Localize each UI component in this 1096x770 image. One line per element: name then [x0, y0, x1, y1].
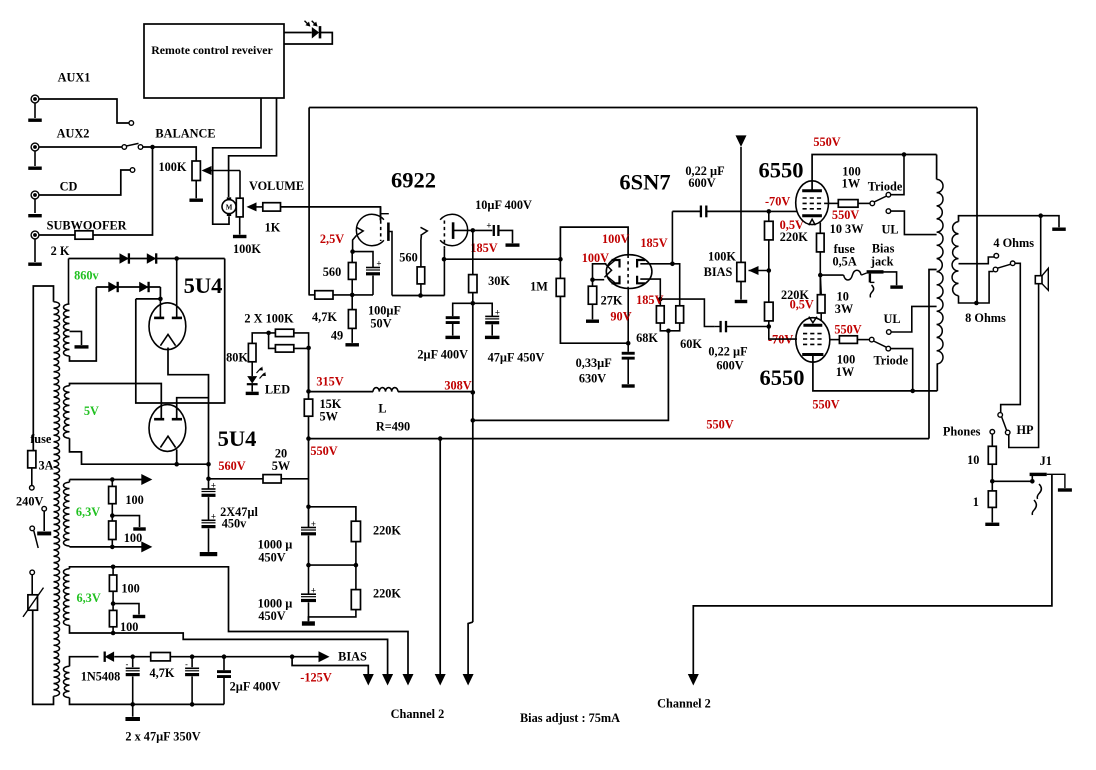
ground bias pot — [740, 282, 742, 300]
mains transformer 5V winding — [63, 386, 69, 439]
remote control receiver box — [144, 24, 284, 98]
svg-text:UL: UL — [881, 223, 898, 237]
grid 6SN7 dashed — [627, 255, 629, 289]
resistor 2K — [75, 231, 93, 239]
diode D1 — [120, 253, 129, 263]
wire 220K mid — [768, 240, 770, 302]
svg-text:0,5V: 0,5V — [790, 297, 814, 311]
svg-text:30K: 30K — [488, 274, 510, 288]
svg-text:fuse: fuse — [30, 432, 52, 446]
svg-text:50V: 50V — [370, 317, 391, 331]
arrow 6.3V-1 bottom — [141, 541, 152, 552]
wire 6.3V-2 bottom lead to channel2 — [70, 625, 388, 674]
wire 4,7K to cathode node — [333, 294, 352, 296]
capacitor 100uF 50V — [353, 252, 373, 268]
wire CD to selector — [39, 170, 130, 195]
ground AUX2 jack — [28, 167, 42, 170]
svg-text:68K: 68K — [636, 331, 658, 345]
speaker — [1040, 216, 1042, 276]
wire B+ rail — [308, 348, 310, 399]
svg-text:6550: 6550 — [759, 158, 804, 183]
node bleeder mid — [309, 564, 356, 566]
ground SUBWOOFER jack — [28, 263, 42, 266]
wire OPT top lead — [936, 155, 938, 180]
resistor 1 phones — [988, 491, 996, 508]
wire 6SN7 left plate — [593, 264, 607, 280]
ground AUX1 jack — [28, 119, 42, 122]
svg-text:600V: 600V — [716, 359, 743, 373]
svg-text:Channel 2: Channel 2 — [657, 697, 711, 711]
wire output node down — [472, 230, 474, 274]
wire selector common down — [1001, 263, 1021, 413]
wire plate lower to OPT bottom — [813, 355, 937, 391]
svg-text:560: 560 — [399, 251, 417, 265]
node cathode network — [350, 293, 355, 298]
arrow channel2 bias — [363, 674, 374, 686]
node 8 ohm feedback — [974, 301, 979, 306]
svg-text:M: M — [226, 204, 233, 212]
svg-text:+: + — [486, 221, 491, 231]
wire secondary top to common — [959, 216, 1041, 222]
wire J1 sleeve to channel 2 — [693, 474, 1052, 674]
svg-text:5V: 5V — [84, 404, 99, 418]
svg-text:100V: 100V — [602, 232, 629, 246]
svg-text:5W: 5W — [320, 410, 339, 424]
ground heater1 — [112, 516, 139, 527]
terminal Phones — [990, 430, 995, 435]
diode D3 — [108, 282, 117, 292]
svg-text:UL: UL — [883, 312, 900, 326]
svg-text:2 K: 2 K — [51, 244, 70, 258]
svg-text:jack: jack — [870, 255, 894, 269]
svg-text:BIAS: BIAS — [338, 649, 367, 663]
wire bias line — [114, 656, 151, 658]
grids 6550 lower dashed — [803, 333, 824, 335]
svg-text:1N5408: 1N5408 — [81, 670, 121, 684]
wire tube1 cathode to 560V — [168, 348, 209, 465]
wire tube2 plate to node B route — [177, 398, 209, 420]
svg-text:Channel 2: Channel 2 — [391, 707, 445, 721]
cathode 6550 lower — [803, 324, 822, 327]
wire bias line 2 — [170, 656, 318, 658]
wire HV diode row 2 — [96, 286, 160, 288]
tube 6SN7 envelope — [606, 255, 652, 289]
node 6922a cathode — [350, 249, 355, 254]
RCA jack AUX1 — [31, 95, 39, 103]
wire cathode lower up — [820, 313, 822, 321]
selector contact CD — [130, 168, 135, 173]
node B+ long line — [306, 436, 311, 441]
svg-text:315V: 315V — [316, 374, 343, 388]
svg-text:2 X 100K: 2 X 100K — [244, 312, 294, 326]
wire SRPP node — [392, 295, 445, 297]
plates 6SN7 — [612, 260, 620, 268]
node 308V — [471, 390, 476, 395]
mains transformer primary winding — [54, 302, 60, 697]
svg-text:550V: 550V — [813, 135, 840, 149]
svg-text:4,7K: 4,7K — [150, 666, 175, 680]
wire 6922b plate to node — [453, 229, 473, 231]
svg-text:47µF 450V: 47µF 450V — [488, 350, 545, 364]
svg-text:1K: 1K — [265, 221, 281, 235]
rectifier tube V2 5U4 — [149, 405, 186, 452]
node bias out — [290, 654, 295, 659]
svg-text:6,3V: 6,3V — [76, 591, 100, 605]
arrow channel2 heater b — [403, 674, 414, 686]
diode D2 — [147, 253, 156, 263]
wire remote out B — [229, 98, 277, 197]
motor M volume — [222, 200, 236, 214]
node OPT bottom triode tap — [910, 389, 915, 394]
terminal 240V neutral — [42, 506, 47, 511]
node channel2 B+ takeoff — [438, 436, 443, 441]
wire AUX1 to selector — [39, 99, 129, 123]
capacitor 0,22uF 600V lower — [715, 326, 720, 328]
plate 6922b — [452, 222, 455, 239]
resistor 100 (hum balance 1b) — [109, 521, 116, 540]
svg-text:0,33µF: 0,33µF — [576, 356, 612, 370]
svg-text:HP: HP — [1016, 423, 1034, 437]
wire node A to tube1 plate — [159, 299, 161, 318]
wire to UL/Triode switch upper — [858, 202, 870, 204]
wire 5V bottom to 560V rail — [70, 438, 209, 464]
wire common bus right edge to 8ohm tap — [976, 108, 978, 304]
rectifier tube V1 5U4 — [149, 303, 186, 350]
svg-text:5U4: 5U4 — [218, 426, 257, 451]
capacitor 0,33uF 630V — [627, 343, 629, 352]
node heater1 top — [110, 477, 115, 482]
jack J1 — [992, 480, 1032, 482]
node splitter return — [666, 329, 671, 334]
contact 4 ohms — [994, 253, 999, 258]
ground 27K — [592, 304, 594, 319]
ground 2uF — [445, 336, 460, 339]
wire 8 ohm tap — [959, 272, 994, 304]
wire bias winding top to diode — [70, 657, 99, 667]
node speaker common — [1038, 213, 1043, 218]
grids 6550 upper dashed — [803, 197, 823, 199]
ground 2X47 caps — [200, 552, 218, 556]
svg-text:6922: 6922 — [391, 168, 436, 193]
svg-text:185V: 185V — [470, 241, 497, 255]
svg-text:1: 1 — [973, 495, 979, 509]
wire -70V to g1 lower — [769, 327, 797, 340]
RCA jack AUX2 — [31, 143, 39, 151]
svg-text:2µF 400V: 2µF 400V — [417, 348, 468, 362]
wire 6SN7 right cathode — [640, 279, 660, 299]
ground 49 — [351, 328, 353, 343]
resistor 220K upper — [768, 211, 770, 221]
wire 6.3V-2 top lead to channel2 — [70, 567, 409, 674]
wire grid feed — [560, 227, 628, 259]
switch speaker impedance — [993, 267, 998, 272]
svg-text:2 x 47µF 350V: 2 x 47µF 350V — [125, 729, 200, 743]
svg-text:BIAS: BIAS — [704, 265, 733, 279]
wire 860V top to diodes — [68, 259, 70, 305]
wires 100K pair right — [294, 333, 309, 349]
capacitor 2uF 400V — [453, 303, 473, 316]
svg-text:R=490: R=490 — [376, 420, 410, 434]
arrow channel2 output — [688, 674, 699, 686]
resistor 100 1W upper — [838, 200, 858, 208]
arrow channel2 heater a — [382, 674, 393, 686]
screen lead lower — [830, 339, 840, 341]
resistor 100 1W lower — [839, 336, 857, 344]
resistor 80K — [248, 343, 256, 361]
capacitor 10uF 400V — [473, 229, 493, 231]
svg-text:1W: 1W — [836, 365, 855, 379]
svg-text:550V: 550V — [834, 322, 861, 336]
resistor 20 5W — [263, 475, 281, 483]
cathode 6922b — [421, 227, 428, 235]
node bias a — [130, 654, 135, 659]
svg-text:10: 10 — [967, 453, 979, 467]
svg-text:0,22 µF: 0,22 µF — [708, 345, 747, 359]
svg-text:BALANCE: BALANCE — [155, 127, 215, 141]
plate 6922a — [387, 223, 390, 241]
wire grid2 lead — [627, 289, 629, 344]
wire triode tap upper — [891, 155, 904, 195]
ground LED — [251, 384, 253, 391]
svg-text:Phones: Phones — [943, 425, 981, 439]
fuse 0,5A — [820, 274, 843, 276]
switch S-mains — [30, 526, 35, 531]
cathodes 6SN7 — [604, 263, 611, 277]
svg-text:100: 100 — [121, 582, 139, 596]
resistor 10 3W lower — [817, 295, 825, 313]
wire common to ground — [1041, 216, 1059, 228]
wire UL tap upper — [891, 211, 937, 235]
node splitter plate — [670, 262, 675, 267]
wire to 20 5W — [209, 478, 264, 480]
wire switch to NTC — [31, 575, 33, 595]
tube 6550 lower envelope — [796, 318, 830, 362]
thermistor NTC inrush — [28, 595, 38, 610]
wire feedback left edge — [308, 108, 310, 295]
svg-text:3W: 3W — [835, 302, 854, 316]
arrow channel2 308V — [463, 674, 474, 686]
resistor 100K-a — [275, 329, 293, 336]
switch HP — [998, 413, 1003, 418]
svg-text:6SN7: 6SN7 — [619, 170, 670, 195]
wire plate to 550V top — [812, 155, 937, 191]
wire -70V to g1 upper — [769, 210, 797, 212]
svg-text:VOLUME: VOLUME — [249, 179, 304, 193]
svg-text:-125V: -125V — [300, 671, 332, 685]
node plate A — [159, 287, 161, 299]
wire 20 5W to rail — [281, 478, 308, 480]
svg-text:100K: 100K — [708, 249, 736, 263]
svg-text:60K: 60K — [680, 337, 702, 351]
svg-text:Remote control reveiver: Remote control reveiver — [151, 43, 272, 57]
bias feed arrow — [736, 135, 747, 147]
resistor 60K — [676, 306, 684, 323]
wire 185V line — [444, 258, 561, 260]
capacitor 2uF 400V bias — [223, 657, 225, 671]
svg-text:2,5V: 2,5V — [320, 232, 344, 246]
node -70V lower — [767, 324, 772, 329]
resistor 220K bleeder lower — [351, 590, 360, 610]
inductor L R=490 — [373, 388, 398, 392]
wire plate node up to coupling — [671, 211, 673, 263]
ground 47uF — [485, 336, 500, 339]
svg-text:240V: 240V — [16, 495, 43, 509]
wire bias feed — [740, 147, 742, 263]
ground 10uF — [506, 243, 520, 246]
resistor 68K — [659, 299, 661, 306]
capacitor 47uF 450V — [473, 303, 492, 316]
svg-text:560V: 560V — [218, 459, 245, 473]
svg-text:100V: 100V — [582, 251, 609, 265]
svg-text:8 Ohms: 8 Ohms — [965, 311, 1006, 325]
wire 30K node down to 308V — [472, 303, 474, 392]
resistor 10 3W upper — [817, 233, 825, 252]
bias jack J-bias — [861, 273, 866, 275]
ground phones divider — [991, 507, 993, 522]
node heater2 top — [111, 565, 116, 570]
resistor 100 (hum balance 1a) — [109, 486, 116, 503]
plate 6550 lower — [802, 353, 823, 356]
svg-text:630V: 630V — [579, 372, 606, 386]
node 20ohm in — [206, 477, 211, 482]
svg-text:220K: 220K — [373, 524, 401, 538]
node grid2/0.33uF — [626, 341, 631, 346]
wire jack to ground — [884, 272, 897, 285]
resistor 1M — [559, 259, 561, 278]
resistor 49 — [351, 295, 353, 310]
wire remote to IR LED loop — [284, 32, 312, 34]
node heater1 mid — [111, 504, 113, 521]
wire 6SN7 right plate — [640, 263, 672, 265]
triode 6922b envelope — [440, 214, 468, 245]
contacts J1 springs — [1037, 484, 1041, 499]
node phones divider — [991, 464, 993, 491]
terminal 240V line — [30, 486, 35, 491]
wire balance wiper to volume — [239, 171, 241, 199]
mains transformer bias winding — [63, 666, 69, 697]
wire 308V jog to arrow — [468, 622, 473, 674]
svg-text:5W: 5W — [272, 459, 291, 473]
svg-text:1000 µ: 1000 µ — [258, 538, 293, 552]
resistor 1K — [263, 203, 281, 211]
svg-text:600V: 600V — [688, 176, 715, 190]
wire plate node to 60K — [672, 264, 679, 306]
wiper bias pot — [749, 266, 759, 275]
svg-text:6,3V: 6,3V — [76, 505, 100, 519]
wire 308V down — [472, 392, 474, 622]
wire 560V to caps — [208, 464, 210, 489]
triode 6922a envelope — [356, 214, 384, 245]
node 550V plate line — [902, 152, 907, 157]
svg-text:4 Ohms: 4 Ohms — [993, 236, 1034, 250]
svg-text:100µF: 100µF — [368, 304, 401, 318]
wire 550V long line to OPT — [309, 438, 930, 440]
cathode 6550 upper — [802, 214, 822, 217]
svg-text:550V: 550V — [832, 208, 859, 222]
diode D5 1N5408 — [105, 652, 114, 662]
wire 5V winding top lead — [70, 384, 162, 420]
wire AUX2 to switch — [39, 146, 122, 148]
wire HV diode row 1 — [69, 258, 225, 260]
wire volume to 6922 grid — [281, 207, 381, 220]
selector switch S1 input — [122, 145, 127, 150]
LED indicator — [251, 362, 253, 376]
wire J1 to ground — [1047, 474, 1065, 488]
ground secondary — [1052, 228, 1066, 231]
switch UL/Triode upper — [870, 201, 875, 206]
resistor 560 cathode b — [420, 236, 423, 267]
mains transformer 6.3V winding 1 — [63, 482, 69, 546]
svg-text:AUX1: AUX1 — [58, 71, 91, 85]
svg-text:6550: 6550 — [760, 365, 805, 390]
wire inductor to 308V — [398, 391, 473, 393]
wire mains primary top lead — [33, 286, 53, 451]
resistor 27K — [592, 280, 594, 287]
wire to UL/Triode switch lower — [857, 339, 869, 341]
wire triode tap lower — [891, 349, 913, 391]
svg-text:450V: 450V — [258, 609, 285, 623]
output transformer secondary winding — [952, 222, 958, 296]
wire bias winding bottom — [70, 698, 225, 705]
IR LED D-ir — [312, 27, 319, 39]
resistor 220K bleeder upper — [351, 521, 360, 541]
svg-text:10µF 400V: 10µF 400V — [475, 198, 532, 212]
wire 6SN7 left cathode — [593, 279, 605, 281]
wire cathode lower chain — [819, 275, 822, 295]
node -70V upper — [767, 209, 772, 214]
svg-text:450v: 450v — [222, 517, 247, 531]
plate 6550 upper — [802, 189, 822, 192]
resistor 10 phones — [991, 434, 993, 446]
resistor 560 cathode a — [351, 252, 353, 263]
tube 6550 upper envelope — [796, 181, 829, 225]
resistor 4,7K bias — [151, 653, 171, 661]
resistor 100 (hum balance 2b) — [109, 610, 116, 626]
svg-text:2µF 400V: 2µF 400V — [230, 679, 281, 693]
selector contact AUX1 — [129, 121, 134, 126]
svg-text:0,5A: 0,5A — [832, 254, 856, 268]
ground 1000uF — [302, 621, 315, 625]
wire 6.3V-1 bottom lead — [70, 546, 148, 548]
wire OPT centre tap to B+ — [929, 270, 937, 439]
wire UL tap lower — [891, 306, 937, 332]
wire cathode upper down — [819, 223, 821, 234]
resistor 4,7K feedback — [309, 294, 315, 296]
wire bleeder bottom to ground — [308, 610, 356, 622]
diode D4 — [139, 282, 148, 292]
svg-text:100: 100 — [124, 531, 142, 545]
wire cathode chain — [819, 252, 821, 295]
resistor 30K — [469, 275, 477, 293]
svg-text:550V: 550V — [812, 398, 839, 412]
wire 6922a cathode — [353, 236, 357, 252]
wire tube2 cathode — [176, 450, 178, 465]
wire OPT bottom lead — [936, 364, 938, 391]
node heater2 bottom — [112, 627, 114, 633]
wire splitter cathode to coupling low — [660, 299, 715, 326]
arrow BIAS out — [319, 651, 330, 662]
svg-text:1W: 1W — [842, 176, 861, 190]
wire 100K pair to 315V rail — [308, 348, 310, 392]
RCA jack CD — [31, 191, 39, 199]
capacitor 47uF bias 2 — [191, 657, 193, 668]
node feedback line — [471, 418, 476, 423]
wire speaker return to HP — [1009, 284, 1039, 448]
svg-text:-70V: -70V — [765, 195, 790, 209]
svg-text:Bias: Bias — [872, 242, 895, 256]
wire 6.3V-1 top lead — [70, 479, 148, 481]
ground CD jack — [28, 214, 42, 217]
